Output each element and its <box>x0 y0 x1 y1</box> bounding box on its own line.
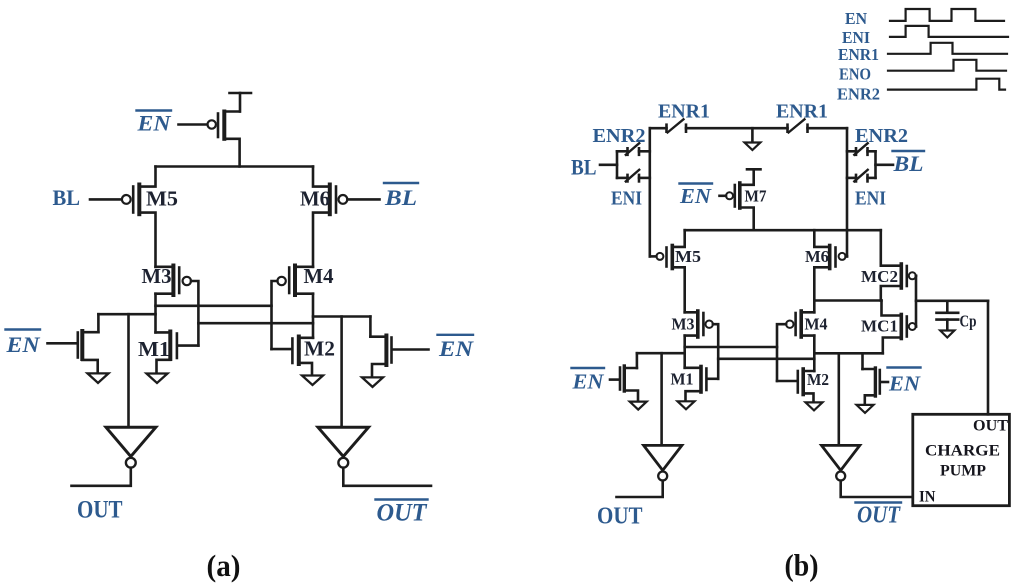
transistor M6 (b) <box>814 230 847 312</box>
inverter right (b) <box>822 445 860 480</box>
label M3 <box>142 264 172 288</box>
label EN-bar left (a) <box>5 332 40 357</box>
svg-text:OUT: OUT <box>973 418 1008 435</box>
transistor M5 <box>122 185 156 267</box>
label ENR2 right (b) <box>855 125 908 147</box>
label BL (b) <box>571 155 597 180</box>
wire M6 source drop <box>313 167 330 187</box>
label MC2 <box>861 267 898 286</box>
label BL-bar (a) <box>384 185 417 210</box>
label M2 <box>304 337 335 361</box>
svg-text:M1: M1 <box>671 370 694 389</box>
wire left output line (b) <box>637 352 685 355</box>
label OUT pin of charge pump <box>973 418 1008 435</box>
wire M6-MC junction line <box>814 299 881 302</box>
svg-text:M4: M4 <box>805 315 828 334</box>
wire cross-couple upper (b) <box>685 346 777 349</box>
transistor M5 (b) <box>650 246 685 313</box>
svg-text:OUT: OUT <box>597 503 643 530</box>
svg-text:(a): (a) <box>207 548 241 583</box>
wire right column node QB <box>312 294 315 338</box>
label EN-bar right (a) <box>438 336 474 361</box>
waveform ENI <box>890 26 1008 37</box>
wire BLbar input (b) <box>876 164 894 167</box>
transistor M6 <box>313 185 347 267</box>
svg-text:M1: M1 <box>138 337 170 361</box>
transistor PMOS enable pull-up (a top) <box>208 112 240 167</box>
ground M1 (a) <box>147 374 168 384</box>
ground right EN (a) <box>362 377 383 387</box>
wire OUTbar tap down (b) <box>837 353 840 445</box>
label EN-bar left (b) <box>571 370 604 394</box>
label EN timing <box>845 9 867 28</box>
svg-text:M2: M2 <box>304 337 335 361</box>
wire left EN drain riser <box>97 314 100 332</box>
overline of OUT-bar (b) <box>856 501 902 503</box>
transistor M3 <box>156 266 192 296</box>
overline of EN-bar left (a) <box>6 328 41 330</box>
wire MC2 source drop <box>881 230 902 266</box>
svg-text:EN: EN <box>571 370 604 394</box>
label EN-bar M7 (b) <box>679 184 712 208</box>
switch ENR1 left <box>667 119 687 132</box>
wire OUT tap down (b) <box>660 353 663 445</box>
svg-text:BL: BL <box>571 155 597 180</box>
svg-text:EN: EN <box>679 184 712 208</box>
wire BLbar branch merge vertical <box>874 151 877 178</box>
wire right EN drain riser (b) <box>861 353 864 369</box>
svg-text:ENO: ENO <box>839 65 871 84</box>
svg-text:OUT: OUT <box>857 503 901 529</box>
wire charge pump OUT up to Cp node <box>987 301 990 415</box>
label ENR1 left (b) <box>658 101 710 123</box>
label M4 (b) <box>805 315 828 334</box>
label ENI right (b) <box>855 188 886 210</box>
svg-text:MC1: MC1 <box>861 317 898 336</box>
svg-text:M3: M3 <box>142 264 172 288</box>
svg-text:IN: IN <box>919 489 936 506</box>
label OUT (b) <box>597 503 643 530</box>
wire M4b gate to cross node <box>777 324 786 381</box>
waveform ENO <box>888 60 1006 71</box>
wire top rail segment 3 (b) <box>808 127 848 130</box>
label MC1 <box>861 317 898 336</box>
overline of EN-bar left (b) <box>572 367 605 369</box>
wire supply rail (a) <box>156 165 314 168</box>
overline of BL-bar (a) <box>384 182 418 184</box>
svg-text:M5: M5 <box>675 247 701 266</box>
ground M2 (b) <box>806 402 823 410</box>
transistor M2 (b) <box>777 369 814 402</box>
transistor right EN footer (a) <box>370 336 428 377</box>
label M5 (b) <box>675 247 701 266</box>
wire gate of top PMOS <box>179 123 208 126</box>
label OUT-bar (a) <box>377 500 429 527</box>
label CHARGE <box>925 443 1000 460</box>
svg-text:M6: M6 <box>805 247 829 266</box>
wire M3 gate to cross node <box>191 281 198 346</box>
label M6 <box>300 187 330 211</box>
VDD supply bar (a) <box>230 93 252 112</box>
svg-text:BL: BL <box>384 185 417 210</box>
waveform EN <box>890 9 1004 21</box>
inverter right (a) <box>318 427 369 467</box>
wire MC gate bus vertical <box>915 276 918 327</box>
wire upper BL branch with ENR2 switch <box>617 143 650 155</box>
transistor M1 <box>156 332 199 374</box>
wire BL branch split vertical <box>616 151 619 178</box>
wire cross-couple lower (a) <box>198 322 313 325</box>
wire left column node Q <box>154 294 157 333</box>
label EN-bar (a top) <box>136 111 171 136</box>
capacitor Cp <box>937 301 959 331</box>
transistor left EN footer (b) <box>610 366 638 402</box>
wire upper BLbar branch with ENR2 switch <box>847 143 876 155</box>
wire top rail segment 1 (b) <box>650 127 667 130</box>
svg-text:ENR1: ENR1 <box>838 45 879 64</box>
ground left EN (a) <box>88 373 109 383</box>
label BL (a) <box>53 185 81 210</box>
wire left column (b) <box>683 336 686 368</box>
wire OUT tap down to inverter (a) <box>127 314 130 427</box>
wire right column (b) <box>813 336 816 371</box>
wire right EN drain riser <box>369 317 372 337</box>
svg-text:EN: EN <box>888 372 921 396</box>
svg-text:BL: BL <box>892 151 923 176</box>
svg-text:MC2: MC2 <box>861 267 898 286</box>
svg-text:EN: EN <box>5 332 40 357</box>
svg-text:Cp: Cp <box>960 312 977 331</box>
label ENR2 left (b) <box>593 125 646 147</box>
wire Cp node line <box>916 299 988 302</box>
inverter left (a) <box>106 427 156 467</box>
caption (b) <box>785 548 819 583</box>
label M1 (b) <box>671 370 694 389</box>
label M4 <box>304 264 334 288</box>
svg-text:ENR2: ENR2 <box>593 125 646 147</box>
transistor left EN footer (a) <box>48 331 99 373</box>
label M6 (b) <box>805 247 829 266</box>
label IN pin of charge pump <box>919 489 936 506</box>
label M5 <box>146 187 178 211</box>
label EN-bar right (b) <box>888 372 921 396</box>
label ENR2 timing <box>837 85 880 104</box>
svg-text:ENR1: ENR1 <box>776 101 828 123</box>
ground M1 (b) <box>678 401 695 409</box>
svg-text:M5: M5 <box>146 187 178 211</box>
label OUT-bar (b) <box>857 503 901 529</box>
svg-text:ENR2: ENR2 <box>837 85 880 104</box>
label M1 <box>138 337 170 361</box>
transistor right EN footer (b) <box>863 368 889 405</box>
svg-text:M3: M3 <box>672 315 695 334</box>
wire OUT from left inverter (b) <box>617 481 663 497</box>
label OUT (a) <box>77 497 123 524</box>
wire top rail segment 2 (b) <box>686 127 788 130</box>
svg-text:OUT: OUT <box>377 500 429 527</box>
wire OUTbar from right inverter <box>343 468 431 486</box>
wire BL input (b) <box>600 164 617 167</box>
wire mid rail (b) <box>685 229 881 232</box>
svg-text:PUMP: PUMP <box>940 463 986 480</box>
label Cp <box>960 312 977 331</box>
overline of EN-bar right (b) <box>888 366 921 368</box>
wire left EN drain riser (b) <box>636 353 639 368</box>
svg-text:ENR2: ENR2 <box>855 125 908 147</box>
VDD supply bar M7 <box>747 168 761 171</box>
svg-text:ENR1: ENR1 <box>658 101 710 123</box>
label BL-bar (b) <box>892 151 923 176</box>
svg-text:BL: BL <box>53 185 81 210</box>
ground M2 (a) <box>302 376 323 386</box>
label ENI timing <box>842 28 870 47</box>
overline of OUT-bar (a) <box>376 498 428 500</box>
label M2 (b) <box>807 370 829 389</box>
ground right EN (b) <box>857 405 874 413</box>
overline of EN-bar (a top) <box>137 109 172 111</box>
wire lower BL branch with ENI switch <box>617 170 650 182</box>
wire M4 gate to cross node <box>272 281 278 349</box>
svg-text:EN: EN <box>136 111 171 136</box>
label M7 <box>745 187 767 206</box>
svg-text:M4: M4 <box>304 264 334 288</box>
svg-text:OUT: OUT <box>77 497 123 524</box>
label ENR1 right (b) <box>776 101 828 123</box>
label ENI left (b) <box>611 188 642 210</box>
transistor M1 (b) <box>685 367 719 402</box>
svg-text:(b): (b) <box>785 548 819 583</box>
wire BL to M5 gate <box>90 198 122 201</box>
transistor M2 <box>272 337 314 376</box>
ground top middle (b) <box>745 128 761 150</box>
label ENO timing <box>839 65 871 84</box>
wire right network vertical down to M6 gate <box>846 128 849 256</box>
transistor MC2 <box>881 264 916 301</box>
svg-text:EN: EN <box>438 336 474 361</box>
charge pump box <box>913 414 1010 505</box>
label ENR1 timing <box>838 45 879 64</box>
waveform ENR2 <box>888 79 1005 90</box>
wire right output line (a) <box>313 315 370 318</box>
ground Cp <box>940 331 954 338</box>
wire left network vertical down to M5 gate <box>648 128 651 256</box>
wire right output line (b) <box>814 352 883 355</box>
svg-text:ENI: ENI <box>611 188 642 210</box>
wire OUTbar from right inverter to charge pump IN <box>841 481 913 497</box>
transistor M3 (b) <box>685 311 713 337</box>
transistor M4 <box>277 266 313 296</box>
svg-text:EN: EN <box>845 9 867 28</box>
svg-text:M2: M2 <box>807 370 829 389</box>
wire EN-bar to M7 gate <box>720 195 727 198</box>
wire lower BLbar branch with ENI switch <box>847 170 876 182</box>
caption (a) <box>207 548 241 583</box>
svg-text:M6: M6 <box>300 187 330 211</box>
svg-text:CHARGE: CHARGE <box>925 443 1000 460</box>
label PUMP <box>940 463 986 480</box>
transistor M4 (b) <box>786 311 814 337</box>
wire cross-couple lower (b) <box>718 357 814 360</box>
transistor MC1 <box>882 301 917 354</box>
svg-text:M7: M7 <box>745 187 767 206</box>
wire M5 source drop <box>139 167 155 187</box>
ground left EN (b) <box>630 402 647 410</box>
switch ENR1 right <box>788 119 808 132</box>
waveform ENR1 <box>888 43 1007 54</box>
overline of EN-bar right (a) <box>438 334 474 336</box>
label M3 (b) <box>672 315 695 334</box>
wire M3b gate to cross node <box>713 324 718 379</box>
wire left output line (a) <box>98 313 155 316</box>
wire OUTbar tap down to inverter (a) <box>340 317 343 428</box>
svg-text:ENI: ENI <box>855 188 886 210</box>
inverter left (b) <box>644 445 682 480</box>
wire OUT from left inverter <box>72 468 131 486</box>
overline of BL-bar (b) <box>893 150 925 152</box>
wire M5b source drop <box>672 230 684 247</box>
wire cross-couple upper (a) <box>156 304 272 307</box>
wire BL-bar to M6 gate <box>348 198 380 201</box>
overline of EN-bar M7 (b) <box>680 182 713 184</box>
transistor M7 <box>726 169 754 230</box>
